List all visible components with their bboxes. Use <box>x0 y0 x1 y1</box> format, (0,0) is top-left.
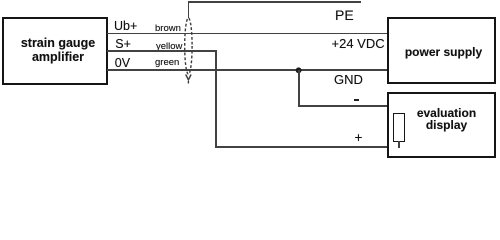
evaluation display box <box>387 92 496 158</box>
wire from junction down <box>298 70 300 107</box>
wire color label brown <box>155 24 181 34</box>
wire S+ yellow vertical segment down <box>215 50 217 148</box>
power supply box <box>387 17 496 84</box>
wire 0V green: amplifier to power supply GND <box>107 69 387 71</box>
pin label 0V <box>115 57 130 70</box>
strain gauge amplifier box U1 <box>2 17 108 85</box>
cable shield dashed ellipse <box>180 14 198 90</box>
label +24 VDC <box>332 37 385 50</box>
label: evaluation display <box>394 107 500 131</box>
wire + : to evaluation display plus input <box>215 146 400 148</box>
pin label Ub+ <box>114 20 137 33</box>
wire color label green <box>155 58 179 68</box>
PE wire vertical segment from cable shield <box>188 1 190 18</box>
resistor / indicator element R1 inside display <box>393 113 405 143</box>
shield arrow tip <box>186 75 191 80</box>
label GND <box>334 73 363 86</box>
label PE <box>335 8 354 22</box>
label - (minus terminal) <box>354 99 359 101</box>
wire drop into display resistor <box>398 105 400 114</box>
label + (plus terminal) <box>355 131 363 145</box>
wire S+ yellow horizontal segment <box>107 50 217 52</box>
PE wire horizontal segment <box>188 1 361 3</box>
junction node on GND wire <box>292 64 306 78</box>
label: strain gauge amplifier <box>5 37 111 64</box>
label: power supply <box>391 46 497 58</box>
wire - : junction to evaluation display minus input <box>298 105 400 107</box>
wire color label yellow <box>156 42 182 52</box>
pin label S+ <box>115 38 131 51</box>
wire Ub+ brown: amplifier to power supply +24 VDC <box>107 33 387 35</box>
wire stub from resistor bottom to + wire <box>398 141 400 148</box>
